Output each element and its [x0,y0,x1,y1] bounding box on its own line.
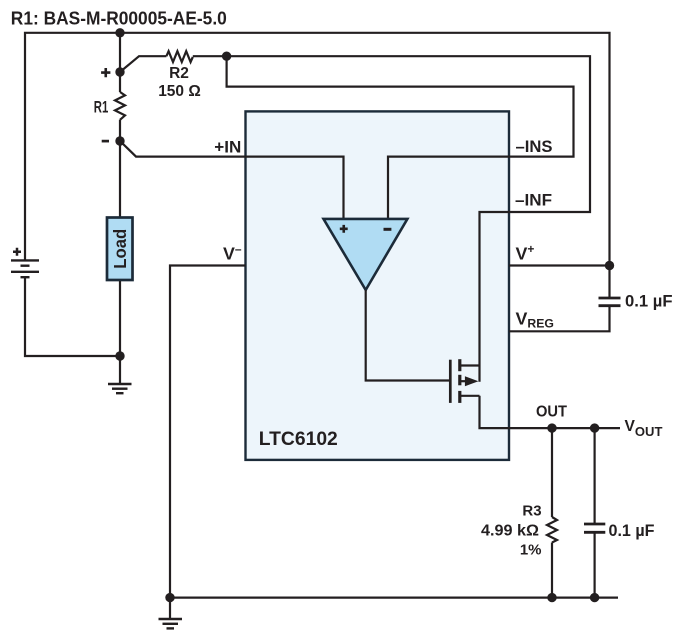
node V+ junction [605,261,614,270]
svg-text:LTC6102: LTC6102 [259,428,338,450]
wire V- pin to ground rail [170,266,246,598]
svg-text:–INF: –INF [515,191,552,210]
label battery + [13,248,21,256]
ground GND2 [159,598,183,629]
wire C2 top lead [593,428,595,524]
svg-text:1%: 1% [520,542,542,559]
wire load bottom to ground junction [119,281,121,356]
resistor R1 [115,92,125,120]
label - node [102,140,109,143]
svg-text:R3: R3 [522,503,541,520]
wire V+ pin [509,264,610,266]
load LOAD1 [107,218,133,281]
capacitor C2 0.1uF [584,524,605,532]
node R2 output junction [222,52,231,61]
wire battery- to ground node [25,277,120,356]
svg-text:R2: R2 [169,65,189,82]
svg-text:+IN: +IN [214,139,241,157]
ground GND1 [108,356,132,393]
node ground junction left [115,351,124,360]
wire R1 branch vertical [119,33,121,92]
node R3 ground junction [547,593,556,602]
svg-text:R1: BAS-M-R00005-AE-5.0: R1: BAS-M-R00005-AE-5.0 [11,9,227,29]
svg-text:150 Ω: 150 Ω [158,83,201,100]
node OUT junction C2 [590,423,599,432]
node + (R1 top) [115,67,124,76]
svg-text:OUT: OUT [536,404,567,421]
node ground rail left junction [165,593,174,602]
svg-text:–INS: –INS [516,137,553,156]
svg-text:0.1 µF: 0.1 µF [625,292,673,310]
wire top rail from battery+ to V+ drop [25,33,610,298]
wire ground rail bottom [170,596,618,598]
wire R2 right lead to junction [193,55,227,57]
transistor Q1 internal MOSFET [450,359,479,403]
wire +node to R2 [120,56,166,72]
op-amp U1 body box LTC6102 [246,111,510,460]
resistor R3 [547,517,557,543]
capacitor C1 0.1uF [599,298,621,306]
op-amp A1 triangle [324,219,408,290]
wire net +IN from - node [120,141,344,219]
wire net -INF outer loop [227,56,590,382]
wire R3 bottom lead [551,543,553,598]
svg-text:Load: Load [110,229,130,269]
svg-text:4.99 kΩ: 4.99 kΩ [481,522,539,539]
wire R3 top lead [551,428,553,517]
battery B1 [11,260,39,277]
node OUT junction R3 [547,423,556,432]
resistor R2 [166,51,192,62]
wire R1 bottom lead [119,120,121,217]
label + node [101,68,110,77]
svg-text:0.1 µF: 0.1 µF [609,522,655,540]
node junction dot top rail / R1 [115,28,124,37]
wire C1 bottom to VREG pin [509,306,610,332]
wire C2 bottom lead [593,532,595,597]
wire net -INS inner loop [227,56,574,218]
svg-text:R1: R1 [94,98,109,116]
node C2 ground junction [590,593,599,602]
node - (R1 bottom) [115,136,124,145]
wire op-amp output to gate [366,290,451,381]
wire MOSFET source to OUT pin [480,396,621,428]
